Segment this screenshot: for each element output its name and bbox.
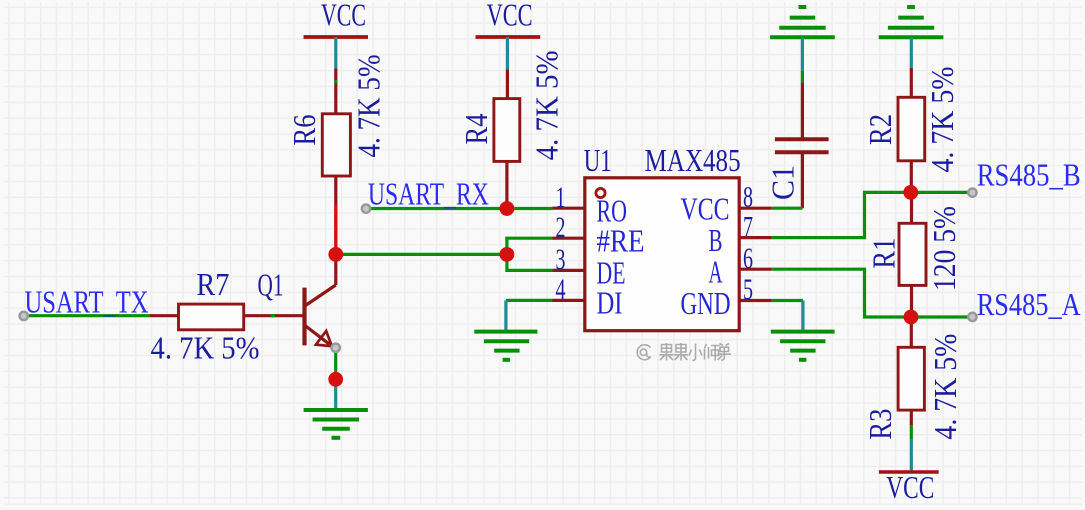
pin 1 RO bbox=[553, 181, 628, 229]
svg-text:1: 1 bbox=[556, 181, 566, 214]
svg-text:USART_RX: USART_RX bbox=[368, 176, 489, 211]
resistor R6 bbox=[287, 55, 386, 177]
pin 5 GND bbox=[681, 273, 772, 321]
pin dot RS485_B bbox=[968, 188, 976, 196]
junction RO node bbox=[500, 201, 515, 216]
pin 3 DE bbox=[553, 243, 626, 291]
svg-text:R3: R3 bbox=[863, 409, 898, 440]
pin 2 #RE bbox=[553, 211, 645, 259]
svg-text:USART_TX: USART_TX bbox=[25, 284, 149, 319]
svg-text:4. 7K 5%: 4. 7K 5% bbox=[151, 331, 260, 366]
svg-text:R1: R1 bbox=[867, 238, 902, 269]
wire USART_TX to R7 bbox=[28, 314, 151, 317]
svg-text:C1: C1 bbox=[765, 165, 800, 200]
pin dot USART_RX bbox=[362, 204, 370, 212]
svg-text:U1: U1 bbox=[584, 143, 612, 178]
svg-text:R6: R6 bbox=[287, 115, 322, 146]
wire node A to pin 6 bbox=[772, 269, 911, 317]
wire VCC stem to R4 bbox=[506, 37, 509, 99]
wire pin 4 to ground bbox=[506, 300, 553, 331]
power VCC symbol (above R4) bbox=[476, 0, 541, 37]
junction node R6/Q1 collector bbox=[328, 247, 343, 262]
transistor Q1 bbox=[258, 254, 336, 346]
op-amp U1 MAX485 body bbox=[584, 143, 741, 331]
wire top ground to C1 bbox=[801, 37, 804, 139]
wire node B to RS485_B bbox=[911, 191, 968, 194]
svg-text:2: 2 bbox=[556, 211, 566, 244]
svg-text:4: 4 bbox=[556, 273, 566, 306]
wire node to pin 3 bbox=[507, 254, 553, 270]
wire R2 to node B bbox=[910, 161, 913, 188]
wire emitter to junction bbox=[334, 352, 337, 374]
wire node A to R3 bbox=[910, 317, 913, 347]
svg-text:VCC: VCC bbox=[321, 0, 366, 33]
power VCC symbol (below R3) bbox=[879, 470, 939, 505]
svg-text:6: 6 bbox=[743, 242, 753, 275]
wire pin 5 to ground bbox=[772, 301, 803, 332]
resistor R7 bbox=[150, 267, 303, 366]
wire R4 bottom to node bbox=[505, 161, 508, 204]
junction emitter/ground bbox=[328, 372, 343, 387]
net label RS485_A bbox=[977, 287, 1081, 322]
wire node A to RS485_A bbox=[911, 315, 968, 318]
capacitor C1 bbox=[765, 139, 828, 200]
ground (pin 5 GND) bbox=[771, 332, 835, 360]
ground (Q1 emitter) bbox=[304, 410, 368, 438]
svg-text:RS485_A: RS485_A bbox=[977, 287, 1081, 322]
svg-text:7: 7 bbox=[743, 210, 753, 243]
wire R6 bottom to node bbox=[334, 176, 337, 250]
svg-text:4. 7K 5%: 4. 7K 5% bbox=[925, 67, 960, 173]
wire node B to pin 7 bbox=[772, 192, 911, 237]
net label USART_RX bbox=[368, 176, 489, 211]
junction node B bbox=[903, 185, 918, 200]
ground (pin 4 DI) bbox=[474, 332, 537, 360]
net label USART_TX bbox=[25, 284, 149, 319]
wire VCC stem to R6 bbox=[334, 37, 337, 114]
resistor R4 bbox=[459, 50, 565, 161]
svg-text:VCC: VCC bbox=[681, 192, 730, 227]
svg-text:5: 5 bbox=[743, 273, 753, 306]
svg-text:RS485_B: RS485_B bbox=[977, 157, 1081, 192]
wire collector node to pins 2,3 node bbox=[336, 253, 507, 256]
junction node A bbox=[904, 310, 919, 325]
wire USART_RX to pin 1 bbox=[370, 207, 553, 210]
svg-text:Q1: Q1 bbox=[258, 268, 284, 303]
pin 6 A bbox=[709, 242, 772, 290]
ground (top, R2) bbox=[879, 7, 944, 37]
power VCC symbol (above R6) bbox=[304, 0, 369, 37]
svg-text:4. 7K 5%: 4. 7K 5% bbox=[928, 334, 963, 440]
svg-text:A: A bbox=[709, 255, 723, 290]
svg-text:VCC: VCC bbox=[886, 470, 934, 505]
svg-text:120 5%: 120 5% bbox=[927, 206, 962, 291]
svg-text:R2: R2 bbox=[863, 114, 898, 145]
resistor R2 bbox=[863, 67, 960, 173]
wire junction to ground bbox=[334, 379, 337, 410]
pin dot Q1 emitter bbox=[332, 344, 340, 352]
svg-text:MAX485: MAX485 bbox=[645, 143, 741, 178]
svg-text:R4: R4 bbox=[459, 113, 494, 144]
svg-text:GND: GND bbox=[681, 286, 731, 321]
svg-text:#RE: #RE bbox=[597, 224, 645, 259]
net label RS485_B bbox=[977, 157, 1081, 192]
wire R3 to VCC bbox=[910, 410, 913, 471]
svg-text:R7: R7 bbox=[196, 267, 229, 302]
svg-text:VCC: VCC bbox=[487, 0, 533, 33]
pin 7 B bbox=[709, 210, 772, 258]
pin 8 VCC bbox=[681, 180, 772, 226]
pin dot USART_TX bbox=[20, 312, 28, 320]
resistor R3 bbox=[863, 334, 963, 440]
resistor R1 bbox=[867, 192, 962, 317]
svg-text:4. 7K 5%: 4. 7K 5% bbox=[352, 55, 387, 158]
svg-text:DI: DI bbox=[597, 286, 623, 321]
junction pins 2,3 node bbox=[500, 247, 515, 262]
wire top ground to R2 bbox=[910, 37, 913, 97]
watermark bbox=[637, 343, 731, 361]
svg-text:B: B bbox=[709, 223, 723, 258]
pin dot RS485_A bbox=[968, 313, 976, 321]
wire C1 to pin 8 bbox=[772, 152, 803, 208]
svg-text:4. 7K 5%: 4. 7K 5% bbox=[530, 50, 565, 160]
svg-text:8: 8 bbox=[743, 180, 753, 213]
svg-text:3: 3 bbox=[556, 243, 566, 276]
wire node to pin 2 bbox=[507, 238, 553, 254]
ground (top, C1) bbox=[770, 7, 835, 37]
pin 4 DI bbox=[553, 273, 623, 321]
